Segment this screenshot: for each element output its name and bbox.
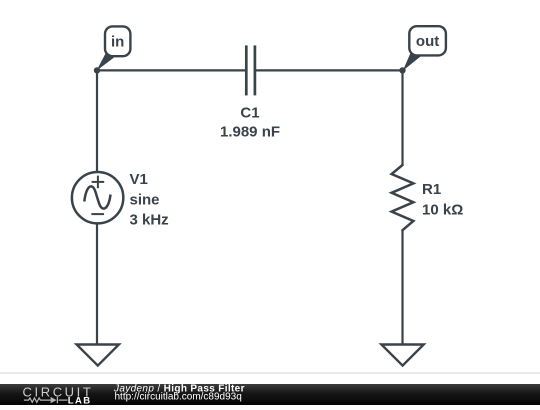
svg-text:in: in [111,34,124,51]
CircuitLab logo [23,385,94,407]
svg-text:1.989 nF: 1.989 nF [220,124,280,141]
voltage source V1 [72,172,123,223]
label R1 value [422,181,463,219]
label V1 value [130,171,169,229]
junction dot (out node) [399,67,405,73]
svg-text:http://circuitlab.com/c89d93q: http://circuitlab.com/c89d93q [115,392,242,403]
svg-text:sine: sine [130,191,160,208]
wire top-left horizontal (node in to C1) [97,69,245,71]
svg-text:LAB: LAB [68,396,92,405]
ground (left) [77,345,119,366]
svg-text:C1: C1 [240,105,259,122]
svg-text:10 kΩ: 10 kΩ [422,201,463,218]
junction dot (in node) [94,67,100,73]
capacitor C1 [246,45,255,95]
node label "in" [97,26,131,70]
svg-text:out: out [416,33,439,50]
resistor R1 [392,165,414,232]
wire right vertical (out to R1 top) [401,70,403,165]
wire top-right horizontal (C1 to node out) [256,69,403,71]
svg-text:V1: V1 [130,171,148,188]
footer credit text [113,383,245,402]
footer bar [0,384,540,405]
wire right vertical (R1 bottom to ground) [401,230,403,345]
svg-text:R1: R1 [422,181,441,198]
ground (right) [381,345,423,366]
separator line above footer [0,373,540,374]
wire left vertical (in to V1 top) [96,70,98,172]
wire left vertical (V1 bottom to ground) [96,223,98,344]
node label "out" [403,26,446,71]
svg-text:3 kHz: 3 kHz [130,212,169,229]
label C1 value [220,105,280,141]
